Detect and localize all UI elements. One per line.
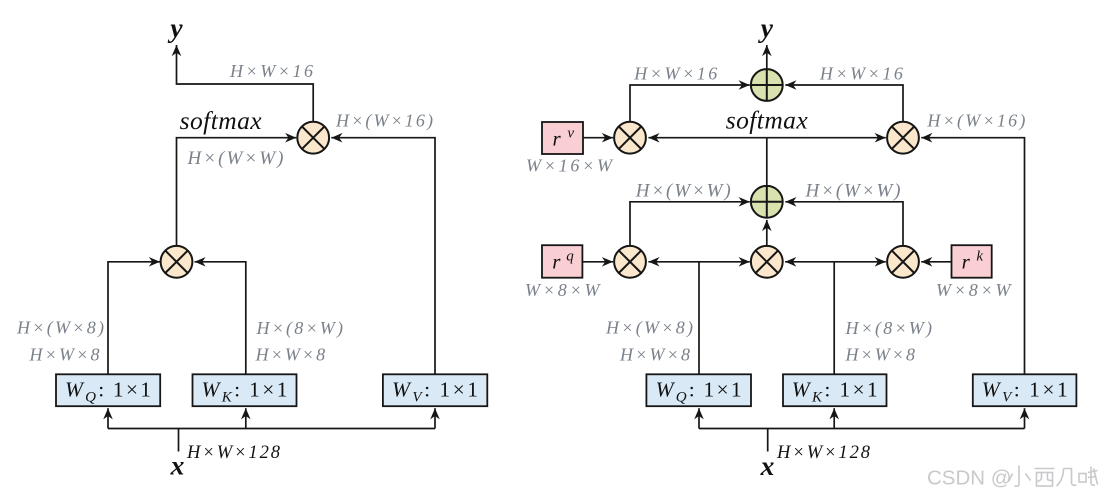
svg-text:y: y bbox=[758, 12, 774, 43]
svg-text:softmax: softmax bbox=[726, 106, 809, 135]
svg-text:H×(W×W): H×(W×W) bbox=[187, 148, 284, 169]
svg-text:CSDN @: CSDN @ bbox=[927, 467, 1012, 490]
wire rv into X3 bbox=[583, 137, 613, 139]
multiply node X6 (Q × K) bbox=[751, 246, 783, 278]
box r^q (query position) bbox=[542, 245, 582, 278]
box r^v (value position) bbox=[542, 122, 583, 154]
watermark glyph 几 bbox=[1057, 469, 1077, 487]
watermark glyph 小 bbox=[1009, 466, 1031, 487]
multiply node X7 (K × r_k) bbox=[887, 246, 919, 278]
label y (left output) bbox=[167, 12, 183, 43]
box r^k (key position) bbox=[952, 245, 992, 278]
svg-text:H×W×16: H×W×16 bbox=[633, 64, 717, 84]
wire rk into X7 bbox=[921, 261, 951, 263]
svg-text:H×W×16: H×W×16 bbox=[819, 64, 903, 84]
svg-text:H×W×16: H×W×16 bbox=[229, 61, 313, 81]
box Wv left bbox=[383, 374, 487, 406]
wire input bus right bbox=[699, 408, 1025, 451]
svg-text:W×16×W: W×16×W bbox=[526, 156, 614, 176]
svg-text:H×(W×W): H×(W×W) bbox=[805, 181, 901, 202]
multiply node X3 (r_v × softmax) bbox=[614, 122, 646, 154]
watermark CSDN text bbox=[927, 467, 1012, 490]
box Wv right bbox=[973, 374, 1077, 406]
wire value left bbox=[331, 138, 435, 375]
label x (right input) bbox=[760, 450, 775, 481]
wire top-left branch into P1 bbox=[630, 85, 750, 122]
multiply node X5 (r_q × Q) bbox=[614, 246, 646, 278]
wire input bus left bbox=[108, 408, 435, 451]
add node P1 (output sum) bbox=[751, 69, 783, 101]
box Wq right bbox=[646, 374, 751, 406]
box Wq left bbox=[56, 374, 160, 406]
svg-text:H×W×8: H×W×8 bbox=[619, 345, 690, 365]
svg-text:y: y bbox=[167, 12, 183, 43]
svg-text:softmax: softmax bbox=[180, 106, 263, 135]
add node P2 (attention sum) bbox=[751, 186, 783, 218]
wire softmax-input left bbox=[177, 138, 297, 246]
multiply node X4 (softmax × V) bbox=[887, 122, 919, 154]
wire X7 up into P2 bbox=[785, 202, 903, 246]
svg-text:H×(W×16): H×(W×16) bbox=[335, 111, 433, 132]
svg-text:H×W×8: H×W×8 bbox=[845, 345, 916, 365]
svg-text:H×W×128: H×W×128 bbox=[186, 443, 281, 463]
svg-text:H×W×8: H×W×8 bbox=[255, 345, 326, 365]
wire output-y right bbox=[766, 45, 768, 69]
watermark glyph 哦 bbox=[1079, 467, 1098, 486]
multiply node X1 (softmax × V, left) bbox=[297, 122, 329, 154]
wire Q split bbox=[648, 262, 749, 375]
wire X5 up into P2 bbox=[630, 202, 750, 246]
multiply node X2 (Q × K, left) bbox=[161, 246, 193, 278]
watermark glyph 西 bbox=[1035, 469, 1055, 487]
svg-text:H×W×8: H×W×8 bbox=[29, 345, 100, 365]
wire X6 up into P2 bbox=[766, 220, 768, 246]
box Wk right bbox=[783, 374, 887, 406]
svg-text:H×(W×8): H×(W×8) bbox=[16, 318, 104, 339]
svg-text:x: x bbox=[170, 450, 185, 481]
label x (left input) bbox=[170, 450, 185, 481]
svg-text:W×8×W: W×8×W bbox=[525, 280, 602, 300]
box Wk left bbox=[193, 374, 297, 406]
svg-text:H×(W×W): H×(W×W) bbox=[635, 181, 731, 202]
wire K split bbox=[785, 262, 886, 375]
wire key left bbox=[195, 262, 246, 375]
wire value right bbox=[921, 138, 1024, 375]
label y (right output) bbox=[758, 12, 774, 43]
wire rq into X5 bbox=[582, 261, 613, 263]
svg-text:H×W×128: H×W×128 bbox=[776, 443, 871, 463]
wire query left bbox=[108, 262, 160, 375]
svg-text:H×(W×8): H×(W×8) bbox=[605, 318, 693, 339]
svg-text:x: x bbox=[760, 450, 775, 481]
wire top-right branch into P1 bbox=[785, 85, 903, 122]
wire output-y left bbox=[177, 45, 314, 122]
wire softmax split bbox=[648, 138, 885, 186]
svg-text:W×8×W: W×8×W bbox=[936, 280, 1013, 300]
svg-text:H×(8×W): H×(8×W) bbox=[845, 318, 933, 339]
svg-text:H×(8×W): H×(8×W) bbox=[256, 318, 344, 339]
svg-text:H×(W×16): H×(W×16) bbox=[926, 111, 1025, 132]
